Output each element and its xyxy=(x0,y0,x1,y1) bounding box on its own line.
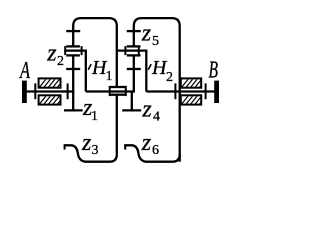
ring gear z6 frame (right rounded shell) xyxy=(134,18,180,162)
planet axle bar (carrier H1 pin) xyxy=(64,51,85,92)
z5 top rim tick (mesh with z6) xyxy=(127,30,141,32)
axle width tick left (stage 2) xyxy=(124,46,126,55)
ring gear z3 lower shell and rim stub xyxy=(64,96,117,162)
carrier H1 bracket bottom xyxy=(86,90,135,92)
main-axis bearing T upper (frame right foot) xyxy=(110,86,125,88)
svg-text:A: A xyxy=(19,58,31,84)
support housing B lower (hatched) xyxy=(181,95,201,104)
svg-text:2: 2 xyxy=(57,54,64,69)
shaft A xyxy=(25,90,74,92)
svg-text:z: z xyxy=(81,130,92,156)
planet axle bearing upper T xyxy=(66,45,80,47)
axle width tick right xyxy=(81,46,83,55)
carrier H2 bracket bottom / shaft B xyxy=(146,90,216,92)
z2 top rim tick (mesh with z3) xyxy=(66,30,80,32)
z2 bottom rim tick (mesh with z1) xyxy=(66,68,80,70)
H1 leader tick xyxy=(88,64,91,70)
ring gear z6 lower shell and rim stub xyxy=(124,145,180,161)
ring gear z3 frame (left rounded shell) xyxy=(73,18,117,86)
svg-text:z: z xyxy=(141,97,152,123)
main-axis bearing tick left xyxy=(109,86,111,96)
svg-text:4: 4 xyxy=(153,110,160,125)
support housing A upper (hatched) xyxy=(39,78,61,87)
sun gear z4 T-bar xyxy=(122,109,141,111)
svg-text:z: z xyxy=(141,20,152,46)
main-axis bearing tick right xyxy=(125,86,127,96)
shaft A end bar xyxy=(22,81,27,103)
axle width tick left xyxy=(64,46,66,55)
planet axle bearing lower T (stage 2) xyxy=(127,54,141,56)
svg-text:1: 1 xyxy=(106,69,113,84)
support housing A lower (hatched) xyxy=(39,95,61,104)
z5 bottom rim tick (mesh with z4) xyxy=(127,68,141,70)
ring z6 rim tick xyxy=(124,145,126,149)
planet axle bearing upper T (stage 2) xyxy=(127,45,141,47)
planet axle bearing lower T xyxy=(66,54,80,56)
shaft B end bar xyxy=(214,81,219,103)
svg-text:6: 6 xyxy=(152,143,159,158)
bearing tick left of A support xyxy=(34,83,36,99)
main-axis bearing T lower xyxy=(110,94,125,96)
svg-text:z: z xyxy=(141,130,152,156)
svg-text:5: 5 xyxy=(152,34,159,49)
bearing tick right of B support xyxy=(205,83,207,99)
planet gear z2 body (vertical line upper) xyxy=(72,55,74,109)
axle width tick right (stage 2) xyxy=(138,46,140,55)
svg-text:2: 2 xyxy=(166,70,173,85)
svg-text:z: z xyxy=(46,40,57,66)
support housing B upper (hatched) xyxy=(181,78,201,87)
planet gear z5 body (vertical line lower) xyxy=(133,55,135,92)
svg-text:B: B xyxy=(209,57,219,83)
sun gear z1 T-bar xyxy=(64,109,83,111)
svg-text:1: 1 xyxy=(91,109,98,124)
sun gear z4 stem xyxy=(131,91,133,110)
bearing tick left of B support xyxy=(174,83,176,99)
ring z3 rim tick xyxy=(64,145,66,149)
svg-text:3: 3 xyxy=(92,143,99,158)
H2 leader tick xyxy=(148,64,151,70)
planet axle bar (carrier H2 pin) xyxy=(117,51,147,92)
bearing tick right of A support xyxy=(67,83,69,99)
